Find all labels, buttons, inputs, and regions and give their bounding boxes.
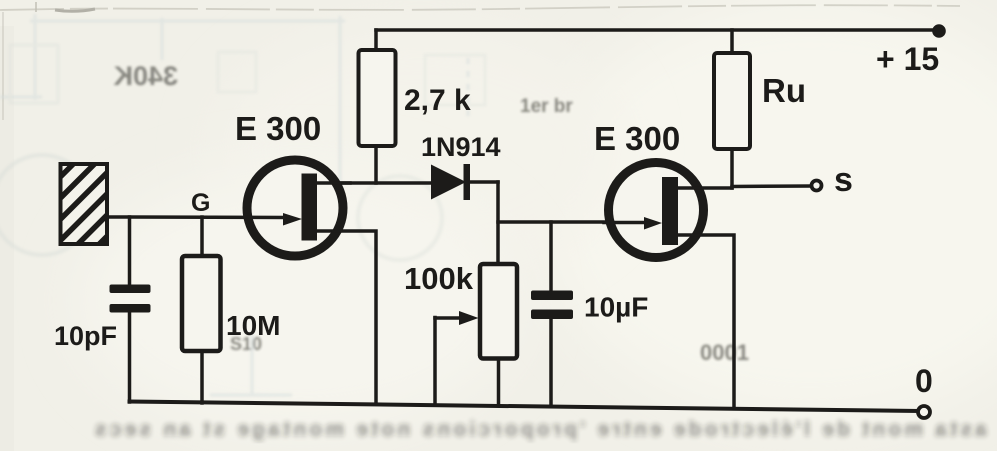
node dot +15 terminal: [932, 24, 946, 38]
svg-text:340K: 340K: [113, 61, 178, 91]
wire R2 bottom to drain node: [374, 146, 378, 183]
svg-text:1N914: 1N914: [421, 132, 501, 162]
svg-text:s: s: [834, 161, 853, 199]
wire P1 bottom to ground rail: [497, 359, 501, 405]
resistor Ru: [714, 53, 750, 149]
wire gate node down to C1: [128, 217, 132, 285]
svg-text:100k: 100k: [404, 261, 474, 296]
svg-text:0001: 0001: [700, 340, 749, 365]
svg-text:asta mont de l'électrode e: asta mont de l'électrode entre 'proporci…: [92, 418, 987, 441]
wire Q1 drain to diode anode: [316, 181, 432, 185]
svg-text:2,7 k: 2,7 k: [404, 84, 471, 117]
terminal 0: [918, 406, 930, 418]
wire electrode to Q1 gate: [106, 215, 285, 219]
ghost bottom caption: [92, 418, 987, 441]
wire R1 bottom to ground rail: [200, 351, 204, 403]
svg-text:0: 0: [915, 363, 933, 399]
ground rail 0V: [130, 402, 919, 412]
svg-text:E 300: E 300: [235, 110, 321, 147]
svg-text:10µF: 10µF: [584, 292, 648, 323]
capacitor C1 10pF: [110, 285, 151, 313]
wire node down to potentiometer top: [496, 182, 500, 264]
wire Q2 drain to Ru: [678, 186, 732, 190]
wire C1 bottom to ground rail: [128, 312, 132, 402]
potentiometer P1 100k body: [480, 264, 517, 359]
wire wiper to ground rail: [433, 318, 437, 405]
wire rail to Ru top: [730, 30, 734, 53]
transistor Q1 E300: [247, 160, 350, 256]
+15 supply rail: [376, 28, 940, 32]
svg-text:G: G: [191, 189, 210, 217]
touch electrode plate: [61, 164, 108, 244]
wire diode cathode to node: [470, 180, 498, 184]
wire node to C2 top: [549, 222, 553, 292]
wiper arrow of P1: [435, 311, 479, 325]
svg-text:+ 15: + 15: [876, 41, 939, 77]
ghost bleed-through marks: [0, 14, 749, 395]
scan artifact top edge: [0, 2, 960, 120]
wire drain node to output s: [732, 184, 811, 188]
terminal s: [812, 181, 822, 191]
wire node to Q2 gate: [498, 220, 642, 224]
wire C2 bottom to ground rail: [549, 318, 553, 405]
wire Q1 source: [316, 231, 376, 402]
svg-text:10M: 10M: [226, 310, 280, 341]
transistor Q2 E300: [604, 163, 704, 258]
wire rail to R2 top: [374, 30, 378, 50]
svg-text:E 300: E 300: [594, 120, 680, 157]
svg-text:10pF: 10pF: [54, 321, 117, 351]
svg-text:1er br: 1er br: [520, 96, 573, 117]
diode D1 1N914: [431, 164, 470, 200]
wire Q2 source down to ground rail: [678, 235, 734, 407]
svg-text:Ru: Ru: [762, 72, 806, 109]
wire Ru bottom to drain node: [730, 149, 734, 188]
resistor R1 10M: [182, 256, 221, 351]
capacitor C2 10uF: [531, 291, 573, 320]
resistor R2 2,7k: [359, 50, 396, 146]
wire gate node down to R1 top: [200, 217, 204, 256]
